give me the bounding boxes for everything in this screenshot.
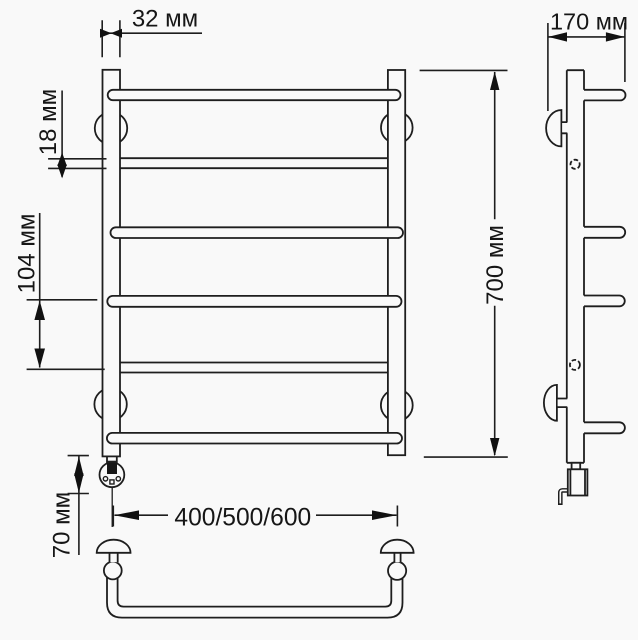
dimension 32 mm: [100, 20, 202, 57]
side bracket dome bottom: [544, 385, 557, 421]
label 170 mm: [550, 9, 628, 35]
svg-text:18 мм: 18 мм: [35, 89, 62, 155]
label 104 mm: [14, 214, 41, 294]
label 700 mm: [482, 225, 509, 305]
svg-text:170 мм: 170 мм: [550, 9, 628, 35]
plug cable line: [111, 487, 113, 527]
bar 6 (pill): [107, 433, 402, 444]
side pill 1: [584, 90, 626, 101]
side bracket neck bottom: [557, 399, 569, 408]
electric plug body: [100, 462, 125, 488]
bottom view ball left: [104, 562, 122, 580]
bottom view dome right: [381, 540, 414, 553]
wall bracket circle top-left: [95, 112, 127, 144]
heating element neck: [572, 463, 581, 470]
bar 5 (plain): [120, 363, 388, 373]
dimension 400/500/600: [113, 506, 397, 527]
svg-text:700 мм: 700 мм: [482, 225, 509, 305]
side pill 4: [584, 422, 625, 433]
bottom view neck left: [110, 553, 118, 562]
side pill 2: [584, 227, 625, 238]
sensor hole 1: [571, 160, 580, 169]
wall bracket circle bottom-right: [381, 389, 413, 421]
electric plug stubs: [107, 456, 117, 463]
side view rail: [567, 70, 584, 463]
dimension 104 mm: [27, 213, 105, 369]
dimension 18 mm: [48, 91, 106, 177]
bottom view dome left: [97, 540, 131, 553]
svg-text:104 мм: 104 мм: [14, 214, 41, 294]
label 70 mm: [49, 492, 76, 558]
right vertical rail: [388, 70, 405, 455]
svg-text:32 мм: 32 мм: [132, 6, 198, 33]
side bracket dome top: [546, 110, 561, 146]
dimension 700 mm: [420, 70, 508, 457]
heater cable: [560, 490, 569, 505]
heating element body: [568, 469, 588, 495]
sensor hole 2: [570, 360, 580, 370]
dimension 70 mm: [68, 456, 89, 555]
wall bracket circle bottom-left: [94, 388, 126, 420]
side bracket neck top: [561, 122, 568, 133]
bar 4 (pill): [107, 296, 401, 307]
left vertical rail: [103, 70, 121, 457]
bar 1 (pill): [108, 90, 401, 100]
label 32 mm: [132, 6, 198, 33]
side pill 3: [584, 296, 625, 307]
bottom view neck right: [394, 553, 400, 562]
bottom view U tube: [107, 573, 403, 618]
bar 3 (pill): [111, 227, 404, 238]
label 400/500/600: [174, 504, 311, 531]
bottom view ball right: [388, 562, 406, 580]
svg-text:400/500/600: 400/500/600: [174, 504, 311, 531]
wall bracket circle top-right: [381, 112, 413, 144]
dimension 170 mm: [548, 23, 625, 111]
label 18 mm: [35, 89, 62, 155]
bar 2 (plain): [120, 158, 388, 168]
svg-text:70 мм: 70 мм: [49, 492, 76, 558]
